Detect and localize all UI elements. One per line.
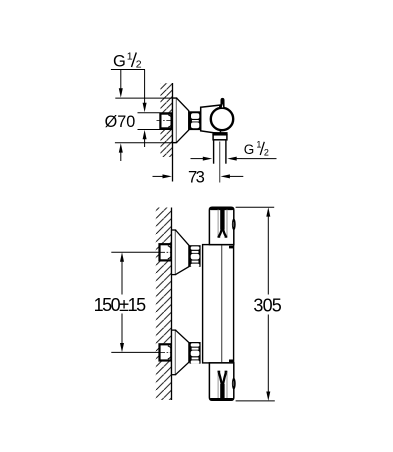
arrow pointing left at pipe (from G1/2 label) [227,157,242,161]
dimension 150±15 [94,252,160,352]
svg-text:150±15: 150±15 [94,295,147,315]
Ø70 upper arrow [119,70,123,98]
top handle cap (bottom view) [209,207,233,244]
leader arrow from G1/2 to fitting top edge [143,70,147,113]
centerline lower connection [160,351,174,353]
mixer body (bottom view) [203,245,234,363]
knob stem on top of valve (top view) [220,98,224,108]
arrow pointing right at pipe (left side) [191,157,213,161]
valve adapter between nut and body (top view) [201,105,221,134]
label G1/2 right (outlet) [242,140,277,159]
svg-text:1: 1 [256,140,261,150]
Ø70 extension line top [115,97,176,99]
bottom handle lever marking [218,371,228,398]
centerline of inlet (top view) [157,120,173,122]
extension line fitting bottom (top view) [138,129,173,131]
wall (bottom view, hatched) [156,208,172,401]
union nut (top view) [189,111,200,130]
Ø70 extension line bottom [115,142,176,144]
label G1/2 top-left [111,51,145,71]
upper escutcheon (bottom view) [172,230,190,275]
bottom handle end disc [232,378,236,390]
svg-text:Ø70: Ø70 [105,113,136,131]
svg-text:73: 73 [188,168,205,187]
valve centerline / 73 extension (top view) [219,142,221,183]
thermostat valve body circle (top view) [211,108,233,130]
lower inlet fitting behind wall (bottom view) [160,344,173,360]
svg-text:1: 1 [127,51,133,63]
eco button tick upper (bottom view) [229,246,233,249]
bottom handle cap (bottom view) [209,363,233,401]
centerline upper connection [160,251,174,253]
lower escutcheon (bottom view) [172,330,190,375]
extension line fitting top (top view) [138,112,173,114]
shower outlet pipe (top view) [214,140,226,164]
svg-text:G: G [113,53,126,71]
inlet union fitting behind wall (top view) [160,114,172,129]
wall (top view, hatched) [161,83,173,182]
upper union nut (bottom view) [190,245,201,267]
lower arrow of G1/2 fitting dimension [143,130,147,147]
lower union nut (bottom view) [190,342,201,364]
svg-text:2: 2 [136,58,142,70]
upper inlet fitting behind wall (bottom view) [160,230,176,275]
escutcheon (top view) [173,98,189,143]
svg-text:305: 305 [253,296,281,316]
Ø70 lower arrow [119,143,123,161]
svg-text:2: 2 [264,147,269,157]
dimension 305 [236,207,282,401]
top handle end disc [232,218,236,230]
dimension 73 [153,168,244,187]
top handle lever marking [218,210,228,237]
eco button tick lower (bottom view) [229,360,233,363]
svg-text:G: G [244,142,255,157]
outlet nut below valve (top view) [212,132,227,140]
